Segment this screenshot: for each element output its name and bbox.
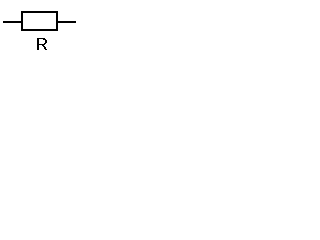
- wire left lead: [3, 21, 22, 23]
- label R: [37, 38, 47, 50]
- wire right lead: [58, 21, 76, 23]
- resistor R: [22, 12, 57, 30]
